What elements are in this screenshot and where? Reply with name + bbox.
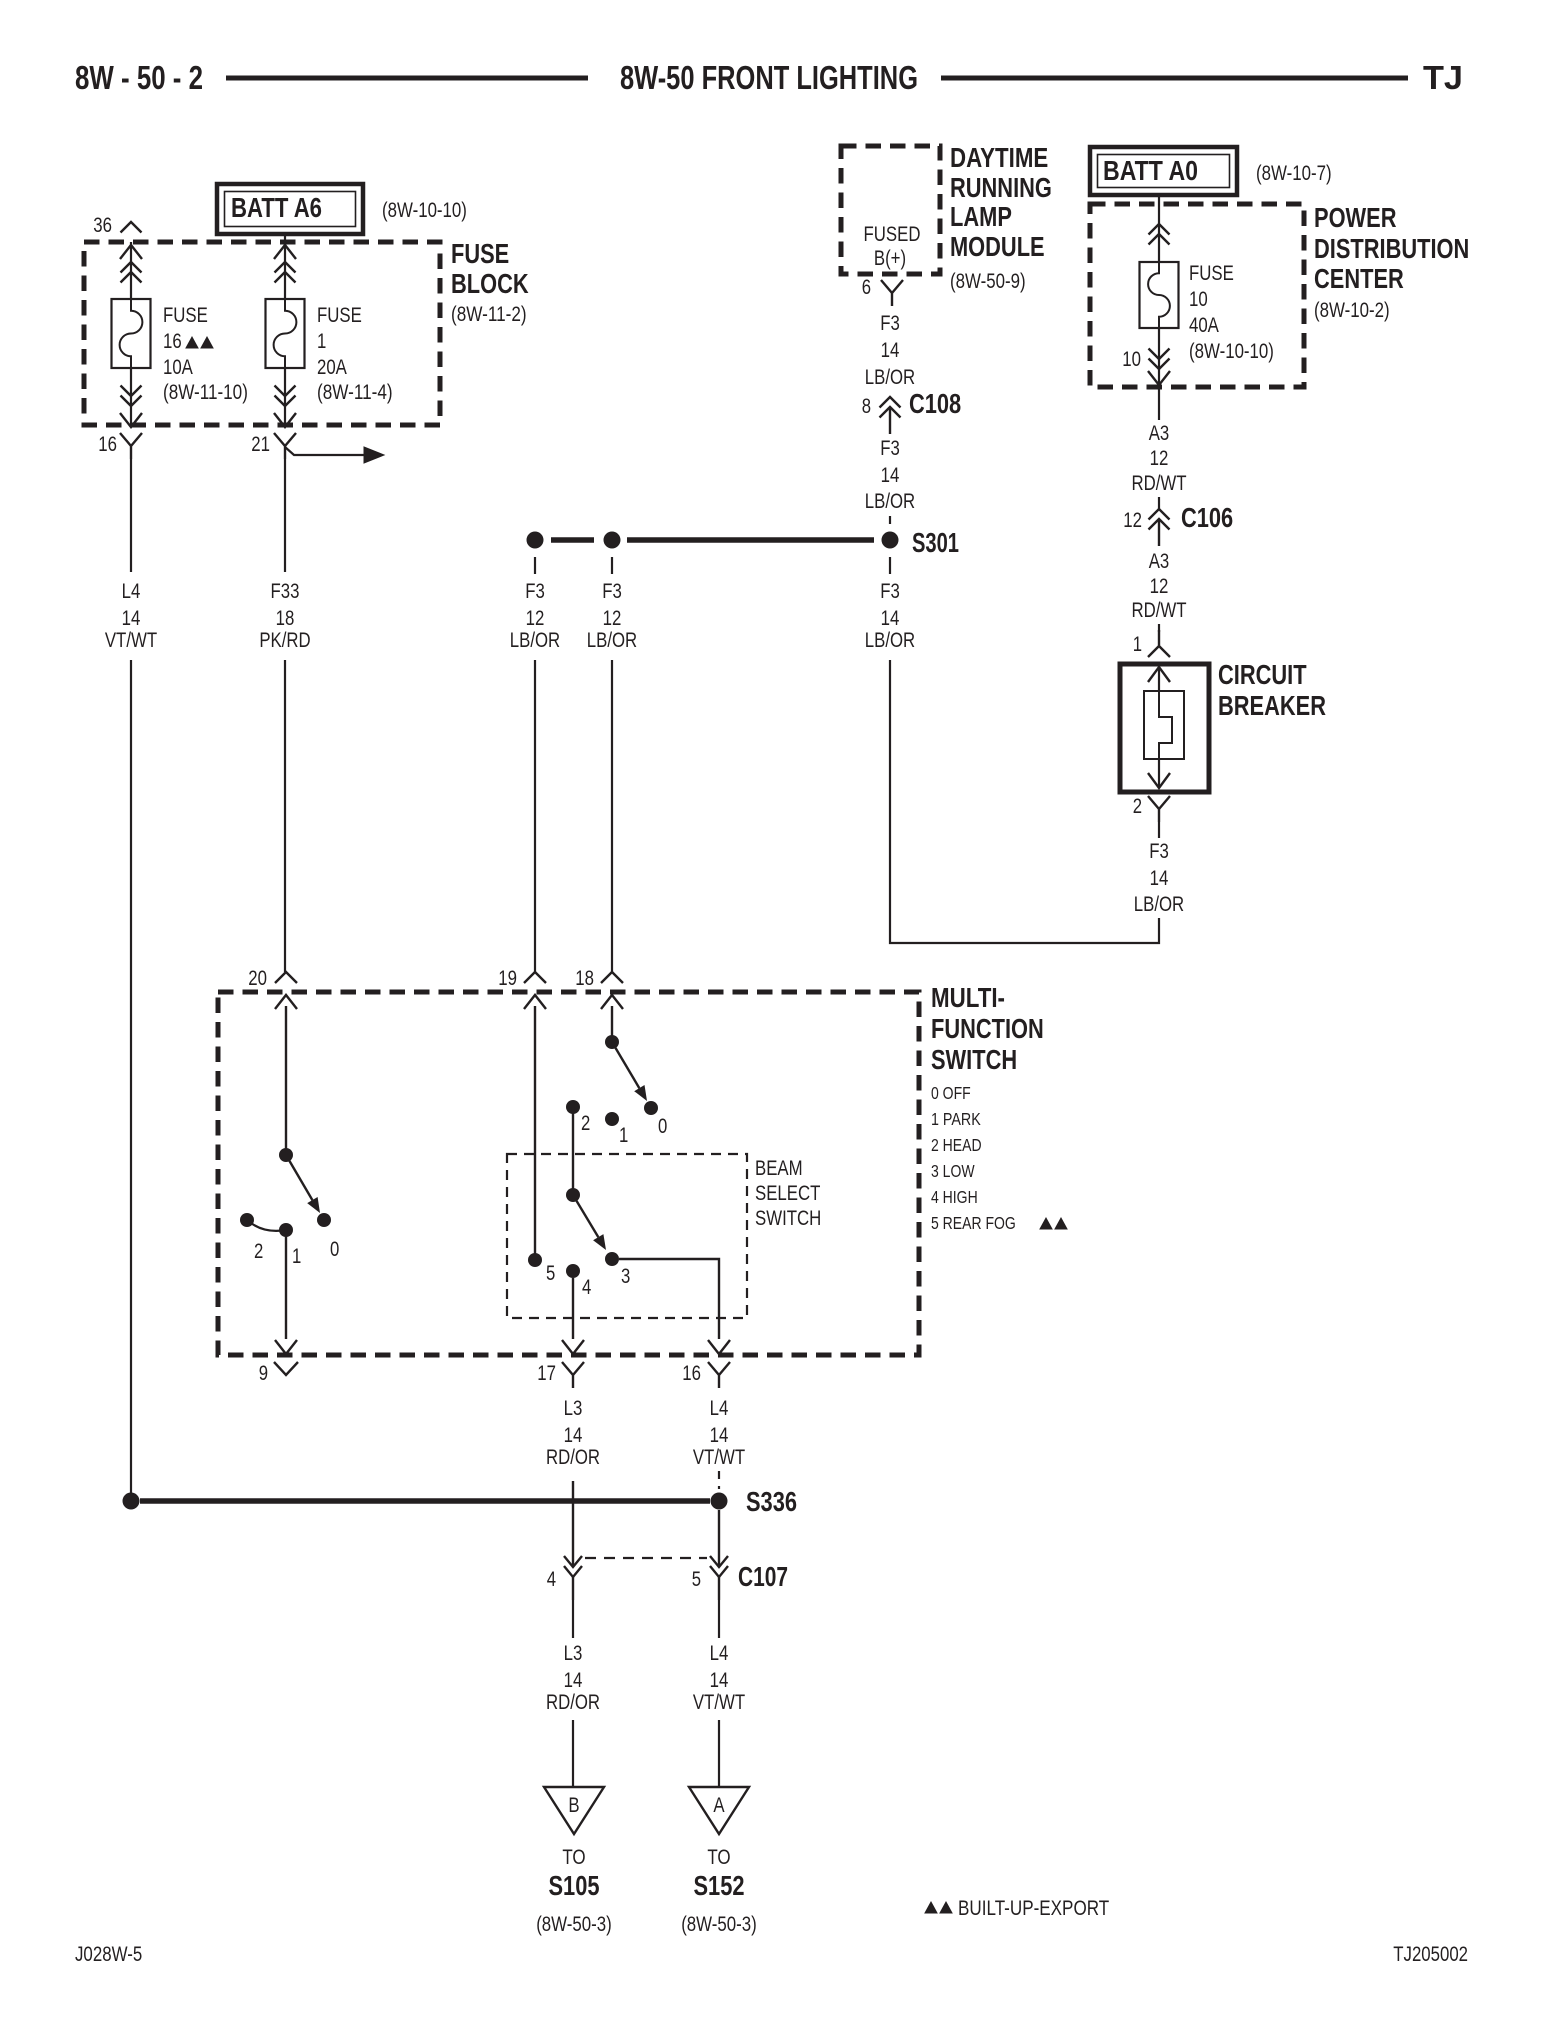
svg-text:L3: L3: [564, 1397, 583, 1420]
wire L4 upper segment: [130, 459, 132, 572]
pin 10 label: [1122, 348, 1141, 371]
header rule left: [226, 76, 588, 81]
power distribution center dashed outline: [1090, 204, 1304, 387]
svg-text:2: 2: [1133, 795, 1142, 818]
svg-text:4: 4: [582, 1276, 592, 1299]
svg-text:RUNNING: RUNNING: [950, 172, 1052, 203]
connector half below DRL module (pin 6): [881, 280, 903, 306]
reference (8W-10-7) for BATT A0: [1256, 162, 1332, 185]
splice dot S301: [882, 532, 899, 549]
svg-text:B: B: [568, 1794, 579, 1817]
svg-text:BATT A6: BATT A6: [231, 192, 322, 223]
wire from fuse 10 out of PDC with double chevrons: [1148, 328, 1170, 387]
wire F33 upper segment: [284, 459, 286, 572]
wire into off-page triangle A: [718, 1720, 720, 1787]
wire contact 3 to pin 16 with exit arrow: [619, 1259, 730, 1354]
connector C107 name: [738, 1561, 788, 1592]
svg-text:BREAKER: BREAKER: [1218, 690, 1326, 721]
svg-text:5 REAR FOG: 5 REAR FOG: [931, 1213, 1016, 1233]
svg-text:1 PARK: 1 PARK: [931, 1109, 981, 1129]
splice dot left (F3 12 LB/OR): [527, 532, 544, 549]
connector C107 dashed tie: [585, 1557, 707, 1559]
circuit breaker box: [1120, 664, 1209, 792]
svg-text:14: 14: [122, 607, 141, 630]
svg-text:FUSE: FUSE: [317, 304, 362, 327]
svg-text:F3: F3: [880, 437, 900, 460]
circuit breaker internal element: [1144, 667, 1184, 788]
svg-text:40A: 40A: [1189, 314, 1219, 337]
stub below S301 dot: [889, 557, 891, 574]
in-line connector C108 pin 8: [862, 395, 871, 418]
wire from fuse 1 to pin 21 with double chevrons: [274, 368, 296, 427]
svg-text:10A: 10A: [163, 356, 193, 379]
svg-text:9: 9: [259, 1362, 268, 1385]
svg-text:VT/WT: VT/WT: [693, 1691, 745, 1714]
svg-text:14: 14: [881, 464, 900, 487]
svg-text:2 HEAD: 2 HEAD: [931, 1135, 982, 1155]
headlamp switch contact 2: [240, 1213, 254, 1227]
svg-text:(8W-10-7): (8W-10-7): [1256, 162, 1332, 185]
svg-text:12: 12: [1123, 509, 1142, 532]
fuse 1 value label: [317, 304, 393, 404]
dimmer contact 0: [644, 1101, 667, 1138]
svg-text:J028W-5: J028W-5: [75, 1943, 142, 1966]
svg-text:5: 5: [546, 1262, 555, 1285]
svg-text:14: 14: [564, 1424, 583, 1447]
connector half above switch (pin 19): [524, 972, 546, 983]
wire label F3 14 LB/OR (DRL side): [865, 312, 915, 389]
headlamp switch wire pin 20 with entry arrow: [275, 995, 297, 1155]
connector half below switch (pin 17): [562, 1362, 584, 1388]
headlamp switch contact arc 2-1: [247, 1220, 286, 1231]
fuse 16 value label with export triangles: [163, 304, 248, 404]
wire label F3 14 LB/OR (right): [865, 580, 915, 652]
svg-text:L4: L4: [122, 580, 141, 603]
pin 20 label: [248, 967, 267, 990]
svg-text:LB/OR: LB/OR: [865, 629, 915, 652]
wire from S336 down to C107 pin 5: [718, 1510, 720, 1567]
svg-text:BLOCK: BLOCK: [451, 268, 529, 299]
svg-text:A3: A3: [1149, 422, 1170, 445]
headlamp switch pivot and wiper arrow: [279, 1148, 320, 1213]
wire segment below C107 pin 4: [572, 1600, 574, 1638]
svg-text:6: 6: [862, 276, 871, 299]
svg-text:L4: L4: [710, 1397, 729, 1420]
wire label L3 14 RD/OR (above S336): [546, 1397, 600, 1469]
svg-text:L4: L4: [710, 1642, 729, 1665]
pin 16 label: [682, 1362, 701, 1385]
svg-text:16: 16: [682, 1362, 701, 1385]
wire contact 2 to beam pivot: [572, 1107, 574, 1195]
splice dot middle (F3 12 LB/OR): [604, 532, 621, 549]
wire label L4 14 VT/WT (left): [105, 580, 157, 652]
wire stub into circuit breaker pin 1: [1158, 624, 1160, 632]
svg-text:A: A: [713, 1794, 724, 1817]
wire contact 4 to pin 17 with exit arrow: [562, 1278, 584, 1354]
svg-text:FUSE: FUSE: [1189, 262, 1234, 285]
svg-text:8W-50 FRONT LIGHTING: 8W-50 FRONT LIGHTING: [620, 59, 918, 96]
splice S336 name: [746, 1486, 797, 1517]
wire into off-page triangle B: [572, 1720, 574, 1787]
connector half below fuse block (pin 21): [274, 433, 296, 459]
svg-text:14: 14: [881, 607, 900, 630]
wire F3 12 left segment down to switch pin 19: [534, 660, 536, 972]
reference (8W-10-10) for BATT A6: [382, 199, 467, 222]
dimmer contact 2: [566, 1100, 590, 1135]
svg-text:16: 16: [163, 330, 182, 353]
wire stub above C106: [1158, 497, 1160, 509]
multi-function switch dashed outline: [218, 992, 919, 1355]
wire label F33 18 PK/RD: [259, 580, 310, 652]
svg-text:(8W-50-9): (8W-50-9): [950, 270, 1026, 293]
wire L4 long segment down to S336: [130, 660, 132, 1496]
wire label F3 14 LB/OR (below C108): [865, 437, 915, 513]
in-line connector C106 pin 12: [1123, 509, 1142, 532]
svg-text:RD/OR: RD/OR: [546, 1446, 600, 1469]
svg-text:(8W-50-3): (8W-50-3): [536, 1913, 612, 1936]
sheet code J028W-5: [75, 1943, 142, 1966]
headlamp switch contact 0: [317, 1213, 331, 1227]
svg-text:DAYTIME: DAYTIME: [950, 142, 1048, 173]
svg-text:10: 10: [1122, 348, 1141, 371]
svg-text:TO: TO: [562, 1846, 585, 1869]
circuit breaker pin 2 label: [1133, 795, 1142, 818]
circuit breaker pin 1 label: [1133, 633, 1142, 656]
pin 17 label: [537, 1362, 556, 1385]
svg-text:(8W-10-2): (8W-10-2): [1314, 299, 1390, 322]
svg-text:4: 4: [547, 1568, 557, 1591]
fuse 16 (10A) symbol: [112, 299, 151, 368]
connector C106 symbol: [1149, 509, 1170, 546]
svg-text:LB/OR: LB/OR: [1134, 893, 1184, 916]
svg-text:SWITCH: SWITCH: [931, 1044, 1017, 1075]
svg-text:14: 14: [881, 339, 900, 362]
connector C106 name: [1181, 502, 1233, 533]
svg-text:17: 17: [537, 1362, 556, 1385]
header rule right: [941, 76, 1408, 81]
svg-text:1: 1: [1133, 633, 1142, 656]
svg-text:3 LOW: 3 LOW: [931, 1161, 975, 1181]
stub below left splice dot: [534, 557, 536, 574]
wire from BATT A0 into PDC with double chevrons: [1149, 195, 1170, 262]
svg-text:CIRCUIT: CIRCUIT: [1218, 659, 1307, 690]
svg-text:F33: F33: [271, 580, 300, 603]
svg-text:2: 2: [581, 1112, 590, 1135]
splice S301 name: [912, 527, 959, 558]
wire label F3 12 LB/OR (middle): [587, 580, 637, 652]
connector half below switch (pin 16): [708, 1362, 730, 1388]
beam select switch name: [755, 1157, 821, 1230]
wire L3 through S336 bus down to C107: [572, 1481, 574, 1567]
svg-text:18: 18: [276, 607, 295, 630]
stub below middle splice dot: [611, 557, 613, 574]
wire segment below C107 pin 5: [718, 1600, 720, 1638]
svg-text:0: 0: [658, 1115, 667, 1138]
svg-text:FUSE: FUSE: [451, 238, 509, 269]
svg-text:8: 8: [862, 395, 871, 418]
wire label F3 12 LB/OR (left): [510, 580, 560, 652]
wire from BATT A6 into fuse block with double chevrons: [274, 234, 296, 299]
fuse block dashed outline: [84, 242, 440, 425]
connector C108 symbol: [880, 397, 901, 434]
pin 16 label: [98, 433, 117, 456]
wire F3 12 middle segment down to switch pin 18: [611, 660, 613, 972]
svg-text:20: 20: [248, 967, 267, 990]
svg-text:LB/OR: LB/OR: [587, 629, 637, 652]
svg-text:14: 14: [1150, 867, 1169, 890]
svg-text:21: 21: [251, 433, 270, 456]
connector half above switch (pin 20): [275, 972, 297, 983]
wire label L4 14 VT/WT (above S336): [693, 1397, 745, 1469]
connector half above fuse block (pin 36): [121, 222, 142, 233]
svg-text:(8W-10-10): (8W-10-10): [382, 199, 467, 222]
splice dot left end of S336 bus: [123, 1493, 140, 1510]
pin 6 label: [862, 276, 871, 299]
svg-text:DISTRIBUTION: DISTRIBUTION: [1314, 233, 1469, 264]
connector half below fuse block (pin 16): [120, 433, 142, 459]
svg-text:VT/WT: VT/WT: [105, 629, 157, 652]
svg-text:1: 1: [619, 1124, 628, 1147]
svg-text:POWER: POWER: [1314, 202, 1397, 233]
svg-text:LAMP: LAMP: [950, 201, 1012, 232]
svg-text:5: 5: [692, 1568, 701, 1591]
svg-text:18: 18: [575, 967, 594, 990]
svg-text:F3: F3: [602, 580, 622, 603]
svg-text:S105: S105: [549, 1870, 600, 1901]
svg-text:S301: S301: [912, 527, 959, 558]
svg-text:1: 1: [292, 1245, 301, 1268]
page title center: 8W-50 FRONT LIGHTING: [620, 59, 918, 96]
svg-text:0 OFF: 0 OFF: [931, 1083, 971, 1103]
pin 18 label: [575, 967, 594, 990]
wire pin 18 with entry arrow down to dimmer pivot: [601, 995, 623, 1042]
svg-text:36: 36: [93, 214, 112, 237]
svg-text:SELECT: SELECT: [755, 1182, 821, 1205]
svg-text:MULTI-: MULTI-: [931, 982, 1005, 1013]
connector C107 pin 4 label: [547, 1568, 557, 1591]
svg-text:0: 0: [330, 1238, 339, 1261]
svg-text:16: 16: [98, 433, 117, 456]
svg-text:BUILT-UP-EXPORT: BUILT-UP-EXPORT: [958, 1897, 1109, 1920]
svg-text:MODULE: MODULE: [950, 231, 1045, 262]
svg-text:TJ: TJ: [1423, 59, 1463, 96]
sheet code TJ205002: [1393, 1943, 1468, 1966]
svg-text:14: 14: [710, 1424, 729, 1447]
svg-text:SWITCH: SWITCH: [755, 1207, 821, 1230]
svg-text:(8W-11-4): (8W-11-4): [317, 381, 393, 404]
svg-text:S336: S336: [746, 1486, 797, 1517]
svg-text:3: 3: [621, 1265, 630, 1288]
branch arrow to other circuit from pin 21: [285, 447, 384, 463]
destination label TO S152: [681, 1846, 757, 1936]
svg-text:TJ205002: TJ205002: [1393, 1943, 1468, 1966]
connector half above switch (pin 18): [601, 972, 623, 983]
pin 21 label: [251, 433, 270, 456]
thick jumper between splice dots: [551, 537, 594, 543]
svg-text:LB/OR: LB/OR: [865, 490, 915, 513]
connector C107 pin 4 symbol: [564, 1556, 582, 1600]
svg-text:B(+): B(+): [874, 247, 906, 270]
wire pin 19 with entry arrow down to contact 5: [524, 995, 546, 1260]
svg-text:F3: F3: [525, 580, 545, 603]
beam contact 4: [566, 1264, 592, 1299]
power feed box BATT A6: [217, 184, 363, 234]
svg-text:FUSED: FUSED: [864, 223, 921, 246]
svg-text:(8W-50-3): (8W-50-3): [681, 1913, 757, 1936]
svg-text:FUSE: FUSE: [163, 304, 208, 327]
connector half below circuit breaker (pin 2): [1148, 796, 1170, 822]
svg-text:12: 12: [603, 607, 622, 630]
fuse 10 (40A) symbol: [1140, 262, 1179, 328]
daytime running lamp module dashed outline: [841, 146, 940, 274]
svg-text:BATT A0: BATT A0: [1103, 155, 1198, 186]
svg-text:FUNCTION: FUNCTION: [931, 1013, 1044, 1044]
multi-function switch name and positions: [931, 982, 1067, 1233]
svg-text:CENTER: CENTER: [1314, 263, 1404, 294]
svg-text:VT/WT: VT/WT: [693, 1446, 745, 1469]
svg-text:14: 14: [710, 1669, 729, 1692]
svg-text:L3: L3: [564, 1642, 583, 1665]
FUSED B(+) terminal label: [864, 223, 921, 270]
wire into fuse block pin 36 with double chevrons: [120, 242, 142, 299]
fuse 1 (20A) symbol: [266, 299, 305, 368]
svg-text:14: 14: [564, 1669, 583, 1692]
destination label TO S105: [536, 1846, 612, 1936]
beam select contact 5: [528, 1253, 555, 1285]
svg-text:RD/WT: RD/WT: [1131, 472, 1186, 495]
off-page connector triangle B: [544, 1787, 604, 1834]
wire F33 segment down to switch pin 20: [284, 660, 286, 972]
beam pivot and wiper arrow to contact 3: [566, 1188, 606, 1250]
svg-text:(8W-11-2): (8W-11-2): [451, 303, 527, 326]
svg-text:LB/OR: LB/OR: [865, 366, 915, 389]
dimmer upper pivot and wiper arrow to 0: [605, 1035, 647, 1101]
pin 36 label: [93, 214, 112, 237]
beam select switch dashed outline: [507, 1154, 747, 1318]
daytime running lamp module name: [950, 142, 1052, 293]
contact position labels 2 1 0 (left switch): [254, 1238, 339, 1268]
pin 19 label: [498, 967, 517, 990]
svg-text:12: 12: [1150, 447, 1169, 470]
wire stub below circuit breaker: [1158, 822, 1160, 838]
connector C107 pin 5 symbol: [710, 1556, 728, 1600]
wire from fuse 16 to pin 16 with double chevrons: [120, 368, 142, 427]
splice dot S336: [711, 1493, 728, 1510]
pin 9 label: [259, 1362, 268, 1385]
headlamp switch contact 1: [279, 1223, 293, 1237]
svg-text:A3: A3: [1149, 550, 1170, 573]
wire from circuit breaker down and left to S301 column: [890, 660, 1159, 943]
svg-text:C106: C106: [1181, 502, 1233, 533]
circuit breaker name: [1218, 659, 1326, 721]
off-page connector triangle A: [689, 1787, 749, 1834]
connector C107 pin 5 label: [692, 1568, 701, 1591]
svg-text:BEAM: BEAM: [755, 1157, 803, 1180]
svg-text:F3: F3: [880, 312, 900, 335]
svg-text:LB/OR: LB/OR: [510, 629, 560, 652]
splice bus to S301: [627, 537, 874, 543]
svg-text:C107: C107: [738, 1561, 788, 1592]
svg-text:19: 19: [498, 967, 517, 990]
svg-text:RD/WT: RD/WT: [1131, 599, 1186, 622]
dimmer contact 1: [605, 1112, 628, 1147]
svg-text:12: 12: [1150, 575, 1169, 598]
svg-text:2: 2: [254, 1240, 263, 1263]
power distribution center name: [1314, 202, 1469, 322]
dashed stub into splice S301: [889, 516, 891, 530]
dashed stub above splice S336: [718, 1471, 720, 1489]
page title right: TJ: [1423, 59, 1463, 96]
svg-text:12: 12: [526, 607, 545, 630]
svg-text:(8W-10-10): (8W-10-10): [1189, 340, 1274, 363]
footnote built-up-export: [925, 1897, 1109, 1920]
page title left: 8W - 50 - 2: [75, 59, 203, 96]
svg-text:RD/OR: RD/OR: [546, 1691, 600, 1714]
svg-text:C108: C108: [909, 388, 961, 419]
svg-text:10: 10: [1189, 288, 1208, 311]
svg-text:4 HIGH: 4 HIGH: [931, 1187, 978, 1207]
wire from contact 1 to pin 9 with exit arrow: [275, 1230, 297, 1354]
power feed box BATT A0: [1090, 147, 1237, 195]
wire label L4 14 VT/WT (below C107): [693, 1642, 745, 1714]
fuse 10 value label: [1189, 262, 1274, 363]
beam contact 3: [605, 1252, 630, 1288]
connector half above circuit breaker (pin 1): [1148, 630, 1170, 657]
connector C108 name: [909, 388, 961, 419]
connector half below switch (pin 9): [274, 1362, 298, 1375]
svg-text:F3: F3: [1149, 840, 1169, 863]
wire A3 segment below PDC: [1158, 387, 1160, 420]
svg-text:F3: F3: [880, 580, 900, 603]
splice S336 bus: [140, 1498, 710, 1504]
wire label A3 12 RD/WT (above C106): [1131, 422, 1186, 495]
svg-text:S152: S152: [694, 1870, 745, 1901]
wire label A3 12 RD/WT (below C106): [1131, 550, 1186, 622]
svg-text:8W - 50 - 2: 8W - 50 - 2: [75, 59, 203, 96]
svg-text:20A: 20A: [317, 356, 347, 379]
svg-text:TO: TO: [707, 1846, 730, 1869]
wire label L3 14 RD/OR (below C107): [546, 1642, 600, 1714]
fuse block name label: [451, 238, 529, 326]
svg-text:PK/RD: PK/RD: [259, 629, 310, 652]
svg-text:1: 1: [317, 330, 326, 353]
svg-text:(8W-11-10): (8W-11-10): [163, 381, 248, 404]
wire label F3 14 LB/OR (circuit breaker output): [1134, 840, 1184, 916]
